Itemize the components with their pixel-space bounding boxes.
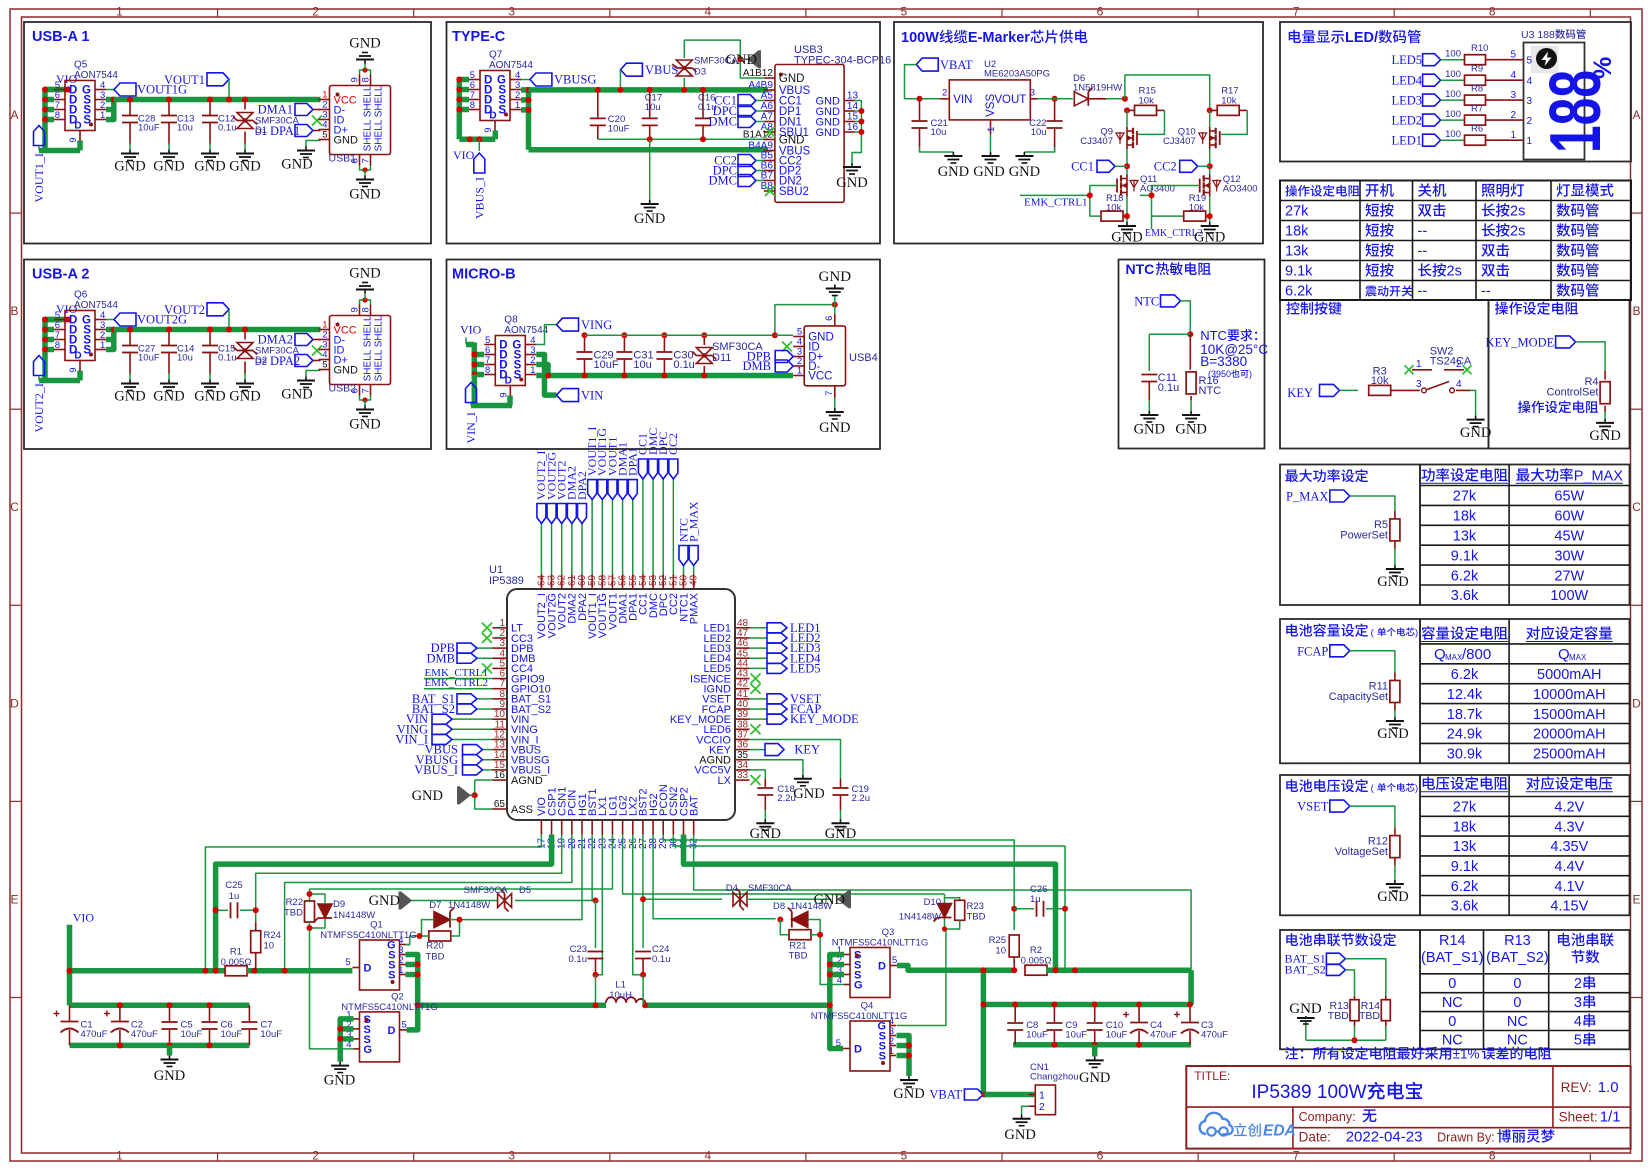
transistor Q9 CJ3407 (1132, 128, 1134, 134)
transistor Q7 AON7544 (480, 71, 510, 121)
svg-text:20000mAH: 20000mAH (1533, 727, 1606, 743)
wire q2 s bus (340, 1019, 353, 1062)
wire shell gnds (852, 101, 861, 164)
svg-text:5: 5 (1510, 50, 1516, 61)
svg-text:--: -- (1481, 284, 1491, 300)
svg-text:MAX: MAX (1445, 653, 1463, 662)
svg-text:R24: R24 (264, 930, 281, 941)
ground shell top (364, 60, 366, 64)
cell 短按 (1365, 243, 1378, 256)
svg-text:5: 5 (1574, 1033, 1582, 1049)
svg-text:E: E (1632, 892, 1640, 906)
capacitor C14 (168, 330, 170, 346)
wire gate (1152, 186, 1200, 217)
svg-text:5: 5 (345, 957, 350, 968)
svg-text:1u: 1u (1030, 894, 1041, 905)
svg-text:P_MAX: P_MAX (686, 501, 700, 542)
tvs diode D3 SMF30CA (683, 78, 685, 90)
svg-text:0.1u: 0.1u (569, 954, 588, 965)
svg-text:10uH: 10uH (609, 990, 632, 1001)
svg-text:4: 4 (704, 5, 711, 19)
svg-text:0.1u: 0.1u (218, 353, 237, 364)
junction (1122, 96, 1128, 102)
no-connect IGND (751, 684, 761, 694)
pin 61 DMA2 top (571, 575, 573, 590)
wire keymode (1576, 342, 1606, 371)
svg-text:D2: D2 (255, 357, 267, 368)
svg-text:100W: 100W (1550, 588, 1588, 604)
wire c21 gnd (920, 148, 954, 152)
net flag DPB (775, 351, 793, 363)
junction (415, 962, 421, 968)
svg-text:45W: 45W (1554, 528, 1584, 544)
ground agnd right (802, 775, 804, 779)
net flag VOUT1G top (601, 500, 603, 575)
svg-text:VoltageSet: VoltageSet (1335, 846, 1388, 858)
junction (1124, 163, 1130, 169)
svg-text:D: D (10, 696, 19, 710)
svg-text:1: 1 (797, 366, 802, 377)
svg-text:CC2: CC2 (666, 433, 680, 455)
junction (117, 1002, 123, 1008)
resistor R11 CapacitySet (1394, 673, 1396, 681)
net flag DMB (775, 360, 793, 372)
junction top (1051, 1002, 1057, 1008)
pin B6 DP2 (764, 170, 775, 172)
svg-text:P_MAX: P_MAX (1574, 468, 1623, 484)
no-connect SBU2 (765, 186, 775, 196)
cell 灯显模式 (1557, 183, 1570, 196)
svg-text:10u: 10u (645, 102, 661, 113)
junction (415, 972, 421, 978)
svg-text:TS24CA: TS24CA (1430, 356, 1472, 368)
svg-text:470uF: 470uF (1201, 1029, 1228, 1040)
junction (982, 1092, 988, 1098)
junction (1011, 906, 1017, 912)
svg-text:GND: GND (1079, 1070, 1110, 1086)
svg-text:1: 1 (398, 965, 403, 976)
wire Q d-pin 2 (45, 337, 54, 343)
pin 46 LED3 (735, 647, 750, 649)
svg-text:7: 7 (361, 388, 372, 393)
svg-text:D8: D8 (773, 901, 785, 912)
pin 3 D+ (793, 356, 804, 358)
wire bank2 gnd (1092, 1045, 1098, 1057)
net flag DPA1 top (632, 500, 634, 575)
svg-text:VBAT: VBAT (940, 58, 973, 72)
svg-text:DMB: DMB (743, 359, 771, 373)
cell 短按 (1365, 263, 1378, 276)
net flag LED2 right (750, 637, 768, 639)
wire emk (1020, 194, 1090, 196)
svg-text:GND: GND (1194, 230, 1225, 246)
wire VBUS rail2 (529, 147, 769, 153)
svg-text:1N4148W: 1N4148W (333, 910, 375, 921)
junction (980, 1002, 986, 1008)
ground q2 (339, 1062, 341, 1066)
wire VBUS rail (529, 87, 769, 93)
junction (467, 136, 473, 142)
svg-text:(BAT_S2): (BAT_S2) (1486, 950, 1549, 966)
net flag VOUT1 top (611, 500, 613, 575)
junction (251, 968, 257, 974)
svg-text:--: -- (1418, 224, 1428, 240)
svg-text:NC: NC (1442, 995, 1463, 1011)
junction (593, 898, 599, 904)
junction (700, 136, 706, 142)
svg-text:8: 8 (470, 100, 475, 111)
svg-text:5: 5 (901, 1149, 908, 1163)
svg-text:D3: D3 (694, 67, 706, 78)
capacitor C9 10uF (1053, 1005, 1055, 1023)
pin 56 DMA1 top (622, 575, 624, 590)
wire gnd drop (649, 139, 651, 200)
net flag LED1 right (750, 627, 768, 629)
svg-text:2: 2 (312, 5, 319, 19)
svg-text:R2: R2 (1030, 945, 1042, 956)
svg-text:TBD: TBD (1359, 1010, 1380, 1022)
svg-text:D: D (854, 1044, 862, 1056)
svg-text:27k: 27k (1285, 204, 1309, 220)
svg-text:9.1k: 9.1k (1451, 548, 1479, 564)
junction (456, 77, 462, 83)
svg-text:D: D (489, 111, 496, 122)
svg-text:1: 1 (116, 1149, 123, 1163)
wire src drop (1126, 197, 1128, 223)
section box MICRO-B (447, 260, 881, 450)
pin 5 GND (793, 336, 804, 338)
no-connect ID (782, 342, 792, 352)
ground (305, 377, 307, 381)
wire VOUT rail (114, 97, 321, 103)
pin 14 GND (844, 110, 855, 112)
svg-text:8: 8 (361, 307, 372, 312)
net flag VING (452, 728, 493, 730)
pin 28 HG2 bottom (652, 820, 654, 835)
wire vout drop (228, 309, 230, 329)
transistor Q12 AO3400 (1203, 175, 1205, 181)
svg-text:LED2: LED2 (1391, 114, 1422, 128)
pin 29 PCON bottom (662, 820, 664, 835)
pin A1B12 GND (764, 77, 775, 79)
svg-text:GND: GND (114, 389, 145, 405)
svg-text:GND: GND (1175, 422, 1206, 438)
junction (457, 917, 463, 923)
wire vccio (750, 739, 841, 779)
junction top (661, 332, 667, 338)
junction (476, 136, 482, 142)
ground r16 (1190, 411, 1192, 415)
pin 50 NTC1 top (683, 575, 685, 590)
net flag VING (557, 318, 579, 331)
svg-text:27W: 27W (1554, 568, 1584, 584)
junction (593, 972, 599, 978)
capacitor C16 (702, 90, 704, 119)
net flag VBAT bottom (964, 1089, 983, 1100)
svg-text:470uF: 470uF (1150, 1029, 1177, 1040)
diode D8 1N4148W (792, 912, 808, 928)
svg-text:CC1: CC1 (1071, 160, 1094, 174)
junction (858, 129, 864, 135)
svg-text:D: D (364, 963, 372, 975)
svg-text:7: 7 (824, 391, 835, 396)
ground top (834, 285, 836, 289)
junction (127, 97, 133, 103)
wire gnd link (470, 794, 475, 796)
svg-text:ControlSet: ControlSet (1547, 387, 1599, 399)
svg-text:GND: GND (154, 1068, 185, 1084)
net flag KEY_MODE right (750, 718, 768, 720)
svg-text:3: 3 (508, 1149, 515, 1163)
no-connect ISENCE (751, 674, 761, 684)
junction (471, 352, 477, 358)
svg-text:1: 1 (1416, 359, 1422, 370)
svg-text:R23: R23 (967, 901, 984, 912)
junction (1062, 906, 1068, 912)
svg-text:VBUS_I: VBUS_I (414, 763, 458, 777)
svg-text:GND: GND (229, 389, 260, 405)
pin 21 HG1 bottom (581, 820, 583, 835)
wire flag (1350, 806, 1395, 828)
svg-text:1: 1 (1527, 136, 1533, 147)
svg-text:3: 3 (1574, 995, 1582, 1011)
svg-text:2: 2 (1527, 116, 1533, 127)
wire pin24 LG1 (310, 835, 613, 890)
svg-text:SMF30CA: SMF30CA (748, 883, 792, 894)
junction (640, 896, 646, 902)
capacitor C11 0.1u (1141, 374, 1157, 376)
svg-text:2s: 2s (1510, 224, 1525, 240)
svg-text:D10: D10 (924, 897, 941, 908)
net flag CC1 (1097, 160, 1115, 172)
tvs diode D4 SMF30CA (645, 898, 722, 900)
net flag VBUSG (530, 73, 552, 86)
svg-text:TYPEC-304-BCP16: TYPEC-304-BCP16 (794, 55, 891, 67)
svg-text:7: 7 (361, 158, 372, 163)
svg-text:470uF: 470uF (131, 1029, 158, 1040)
ground (1209, 222, 1211, 226)
transistor Q3 NTMFS5C410NLTT1G (850, 948, 890, 998)
resistor R1 0.005ohm (225, 966, 247, 976)
capacitor C21 10u (919, 99, 921, 121)
net flag DMC (738, 175, 756, 187)
pin 53 DMC top (652, 575, 654, 590)
wire pin17 VIO (205, 835, 541, 971)
pin 36 KEY (735, 749, 750, 751)
svg-text:1: 1 (889, 1046, 894, 1057)
svg-text:R6: R6 (1471, 124, 1483, 135)
wire pin27 BST2 (642, 835, 644, 900)
junction (772, 332, 778, 338)
pin 55 DPA1 top (632, 575, 634, 590)
svg-text:100: 100 (1445, 129, 1461, 140)
net flag DPC (738, 105, 756, 117)
svg-text:G: G (854, 980, 863, 992)
no-connect pin 5 (482, 663, 492, 673)
junction (337, 1026, 343, 1032)
section box ControlSet (1489, 300, 1630, 449)
junction (472, 792, 478, 798)
svg-text:4: 4 (1510, 70, 1516, 81)
svg-text:6.2k: 6.2k (1451, 667, 1479, 683)
ground bank (169, 1056, 171, 1060)
capacitor C31 (623, 335, 625, 352)
svg-text:3: 3 (1510, 90, 1516, 101)
header 电压设定电阻 (1423, 777, 1435, 790)
wire d10 bottom (944, 919, 946, 930)
junction top (582, 332, 588, 338)
svg-text:10k: 10k (1221, 96, 1237, 107)
svg-text:GND: GND (281, 157, 312, 173)
svg-text:FCAP: FCAP (1297, 644, 1328, 658)
inductor L1 10uH (606, 997, 646, 1003)
svg-text:R25: R25 (989, 935, 1006, 946)
svg-text:VOUT1: VOUT1 (164, 73, 205, 87)
no-connect pin 1 (482, 623, 492, 633)
tvs diode D2 SMF30CA (244, 330, 246, 340)
wire pin21 HG1 (460, 835, 583, 920)
svg-text:LED1: LED1 (1391, 134, 1422, 148)
svg-text:470uF: 470uF (81, 1029, 108, 1040)
ground sideways D4 (838, 891, 848, 907)
ground bank2 (1094, 1056, 1096, 1060)
junction (647, 136, 653, 142)
ground cn1 (1021, 1115, 1023, 1119)
wire pin23 LX1 (596, 835, 603, 975)
net flag DMC (738, 116, 756, 128)
junction vio (65, 317, 71, 323)
wire gnd pin5 (775, 334, 793, 336)
svg-text:6: 6 (824, 316, 835, 321)
svg-text:GND: GND (819, 420, 850, 436)
net flag DPC top (662, 479, 664, 575)
net flag CC1 (738, 95, 756, 107)
svg-text:B: B (10, 304, 18, 318)
junction (832, 302, 838, 308)
pin 43 ISENCE (735, 678, 750, 680)
net flag VIN (557, 389, 579, 402)
junction (1124, 213, 1130, 219)
svg-text:4: 4 (1527, 76, 1533, 87)
junction (67, 968, 73, 974)
ground c11 (1148, 411, 1150, 415)
svg-text:16: 16 (494, 770, 506, 781)
svg-text:GND: GND (281, 387, 312, 403)
svg-text:L1: L1 (615, 980, 626, 991)
svg-text:NTMFS5C410NLTT1G: NTMFS5C410NLTT1G (341, 1002, 437, 1013)
svg-text:GND: GND (1460, 425, 1491, 441)
net flag VSET right (750, 698, 768, 700)
net label EMK_CTRL2 (1151, 216, 1153, 229)
svg-text:ME6203A50PG: ME6203A50PG (984, 69, 1050, 80)
net flag VOUT1 (207, 73, 229, 86)
junction (307, 891, 313, 897)
svg-text:5: 5 (836, 1038, 841, 1049)
junction (226, 327, 232, 333)
junction (1011, 967, 1017, 973)
svg-text:D11: D11 (712, 352, 731, 364)
ground (1394, 565, 1396, 569)
connector USB1 USB-A (330, 86, 391, 155)
junction (827, 1002, 833, 1008)
svg-text:NTMFS5C410NLTT1G: NTMFS5C410NLTT1G (832, 938, 928, 949)
svg-text:2: 2 (1456, 359, 1462, 370)
wire q1 s bus (406, 955, 418, 1030)
junction (207, 327, 213, 333)
svg-text:GND: GND (893, 1086, 924, 1102)
svg-text:VIN: VIN (953, 94, 972, 106)
wire S pins (106, 330, 114, 340)
wire cc row (1209, 149, 1211, 175)
junction (1207, 163, 1213, 169)
svg-text:9: 9 (350, 77, 361, 82)
resistor R7 (1441, 119, 1464, 121)
pin 13 VBUS (493, 749, 508, 751)
ground shell bottom (364, 406, 366, 410)
wire pin32 BAT (694, 835, 1191, 971)
svg-text:1/1: 1/1 (1600, 1109, 1621, 1126)
junction (1052, 96, 1058, 102)
junction (1187, 331, 1193, 337)
junction bot (207, 1042, 213, 1048)
capacitor C15 (209, 330, 211, 346)
pin 64 VOUT2_I top (540, 575, 542, 590)
pin B8 SBU2 (764, 190, 775, 192)
svg-text:BAT: BAT (688, 795, 700, 816)
junction (593, 1002, 599, 1008)
junction (701, 373, 707, 379)
wire gate (106, 319, 114, 321)
svg-text:AON7544: AON7544 (74, 300, 118, 311)
cell 数码管 (1556, 203, 1570, 217)
pin 4 ID (793, 346, 804, 348)
svg-text:1N5819HW: 1N5819HW (1073, 83, 1122, 94)
pin 6 shell (834, 314, 836, 326)
cell 双击 (1481, 244, 1495, 256)
svg-text:10uF: 10uF (608, 124, 630, 135)
ground c18 (764, 819, 766, 823)
net flag P_MAX top (693, 566, 695, 575)
table grid (1419, 465, 1421, 606)
junction (1124, 107, 1130, 113)
transistor Q6 AON7544 (65, 311, 95, 361)
resistor R20 TBD (429, 931, 451, 941)
capacitor C12 (209, 100, 211, 116)
pin 35 AGND (735, 759, 750, 761)
junction (545, 373, 551, 379)
svg-text:D: D (74, 351, 81, 362)
svg-text:GND: GND (1377, 574, 1408, 590)
svg-text:LED3: LED3 (1391, 94, 1422, 108)
value company 无 (1363, 1109, 1377, 1122)
header 最大功率P_MAX (1516, 469, 1529, 482)
wire s bus (536, 365, 548, 376)
table grid (1419, 619, 1421, 763)
wire bat_s1 (1345, 959, 1385, 996)
ground vss (990, 152, 992, 156)
junction (642, 1002, 648, 1008)
no-connect ID (312, 346, 322, 356)
capacitor C1 470uF (69, 1005, 71, 1021)
svg-text:A: A (1632, 108, 1640, 122)
title 操作设定电阻 right (1495, 302, 1508, 315)
svg-text:NTC: NTC (1200, 328, 1227, 343)
no-connect SBU1 (765, 127, 775, 137)
capacitor C20 (597, 90, 599, 119)
ground (129, 150, 131, 154)
junction (42, 107, 48, 113)
ground c19 (840, 819, 842, 823)
